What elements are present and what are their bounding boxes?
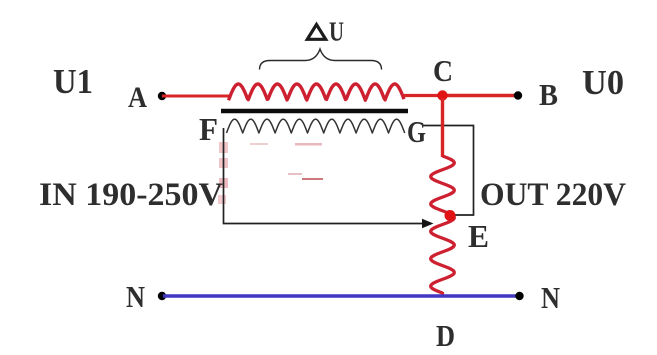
wire C down (red): [441, 98, 444, 157]
svg-text:N: N: [541, 280, 560, 315]
svg-text:B: B: [539, 77, 558, 112]
svg-text:G: G: [407, 114, 426, 149]
label delta-U: outline triangle: [307, 25, 325, 40]
svg-text:U1: U1: [53, 62, 93, 101]
svg-text:D: D: [436, 318, 455, 353]
svg-text:U0: U0: [582, 63, 624, 102]
svg-text:OUT 220V: OUT 220V: [480, 177, 626, 213]
wire G to E (box right side): [423, 126, 474, 216]
feedback box left/bottom wire with wiper arrow: [224, 128, 426, 224]
transformer core bar: [221, 109, 408, 114]
node dot E (red wiper tap): [445, 210, 456, 221]
wire C to B (red): [442, 94, 518, 97]
wire A to coil (red): [162, 95, 229, 98]
svg-text:E: E: [468, 218, 489, 254]
coil FG (black secondary winding): [227, 119, 405, 133]
neutral wire N-N (blue): [163, 294, 519, 297]
svg-text:F: F: [199, 111, 218, 147]
node dot A: [158, 92, 166, 100]
coil CD (red vertical autotransformer winding): [431, 156, 455, 293]
wiper arrowhead: [422, 219, 434, 229]
svg-text:C: C: [433, 53, 453, 88]
svg-text:A: A: [128, 81, 147, 114]
node dot B: [514, 91, 522, 99]
brace over coil: [260, 49, 382, 70]
node dot N left: [158, 292, 166, 300]
svg-text:IN 190-250V: IN 190-250V: [39, 177, 223, 213]
node dot C (red junction): [437, 90, 447, 100]
svg-text:N: N: [126, 279, 145, 314]
coil AC (red horizontal winding): [229, 84, 405, 100]
svg-text:U: U: [329, 17, 344, 47]
node dot N right: [515, 292, 523, 300]
wire coil to D (red): [441, 292, 444, 296]
wire coil to C (red): [404, 94, 443, 97]
